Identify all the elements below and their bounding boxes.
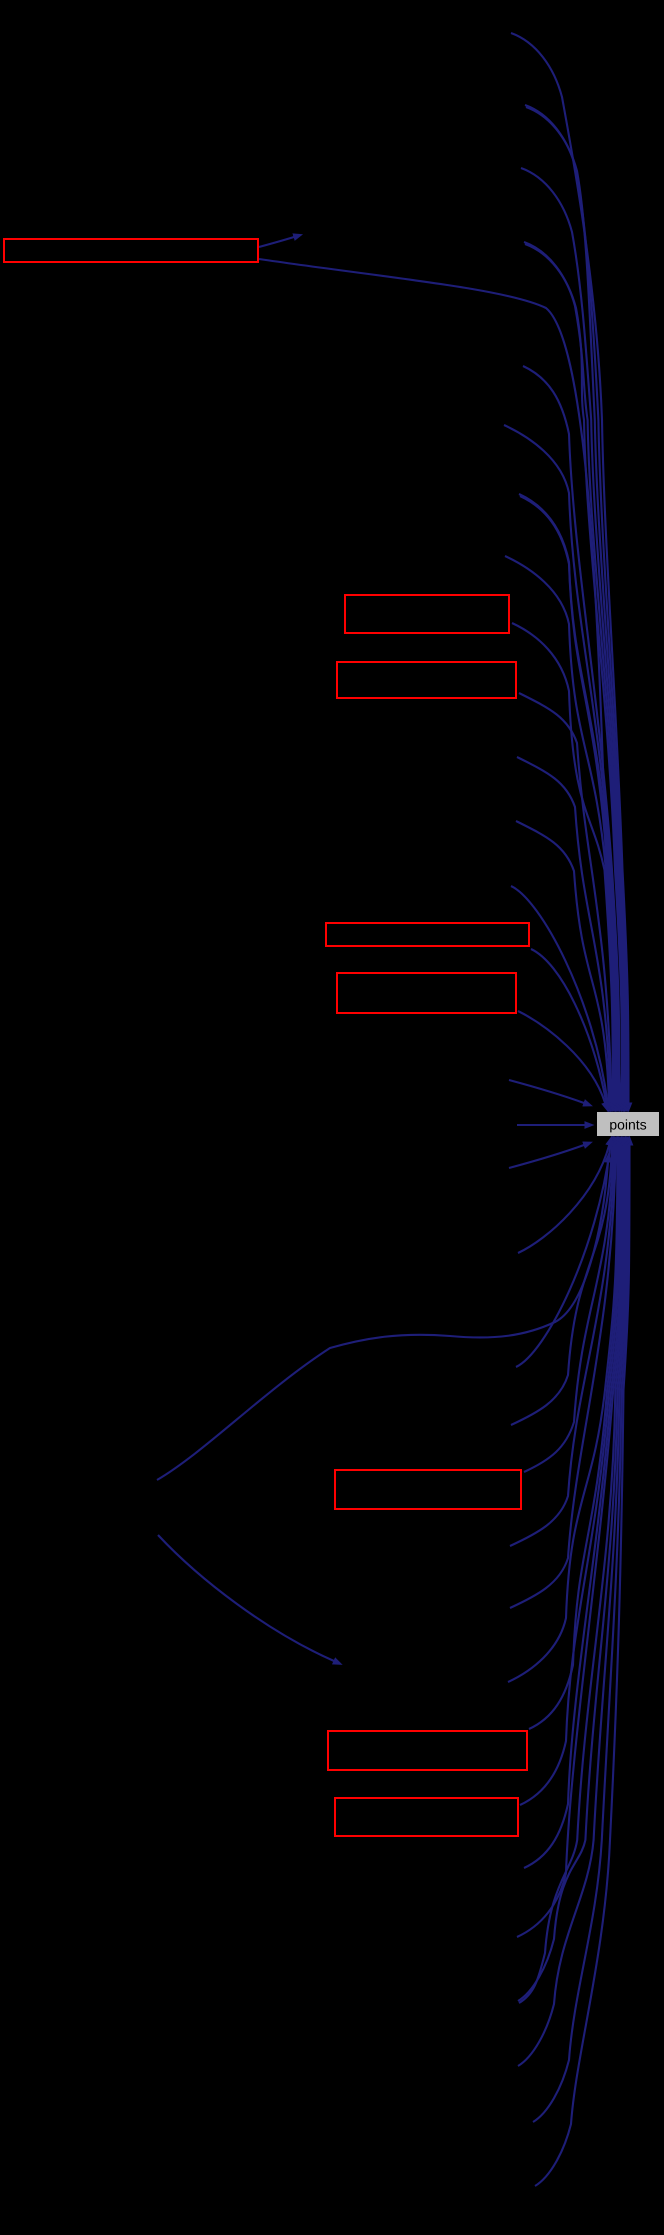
edge caller A2 to points bbox=[525, 105, 627, 1103]
edge caller B4 to points bbox=[518, 1145, 626, 2001]
node points bbox=[597, 1112, 659, 1136]
edge caller A6 to points bbox=[525, 244, 622, 1103]
edge caller B14 to points bbox=[511, 1145, 612, 1425]
edge caller B7 to points bbox=[524, 1145, 621, 1868]
edge caller A1 to points bbox=[511, 33, 629, 1103]
edge caller A11 to points bbox=[520, 496, 616, 1103]
edge caller A17 to points bbox=[511, 886, 608, 1103]
edge hub H1 to points (S curve) bbox=[157, 1162, 608, 1480]
edge caller A19 to points bbox=[518, 1011, 605, 1103]
edge R1 to hidden node M1 bbox=[259, 237, 294, 247]
edge caller B8 to points bbox=[520, 1145, 620, 1805]
edge caller A10 to points bbox=[519, 494, 617, 1103]
edge R1 to points bbox=[259, 259, 621, 1103]
edge caller B12 to points bbox=[510, 1145, 615, 1546]
edge caller B2 to points bbox=[533, 1145, 628, 2122]
edge caller A9 to points bbox=[504, 425, 618, 1103]
truncated node R3 bbox=[337, 662, 516, 698]
truncated node R6 bbox=[335, 1470, 521, 1509]
edge left L1 to points bbox=[509, 1080, 584, 1103]
truncated node R8 bbox=[335, 1798, 518, 1836]
edge caller B3 to points bbox=[518, 1145, 627, 2066]
truncated node R7 bbox=[328, 1731, 527, 1770]
edge caller A3 to points bbox=[526, 107, 626, 1103]
truncated node R5 bbox=[337, 973, 516, 1013]
edge hub H1 to hidden node M2 bbox=[158, 1535, 334, 1661]
edge caller A8 to points bbox=[523, 366, 619, 1103]
edge caller B16 to points bbox=[518, 1145, 609, 1253]
edge caller B15 to points bbox=[516, 1145, 611, 1367]
truncated node R4 bbox=[326, 923, 529, 946]
edge caller B13 to points bbox=[524, 1145, 613, 1472]
edge caller B11 to points bbox=[510, 1145, 616, 1608]
edge caller B5 to points bbox=[519, 1145, 624, 2003]
edge caller A13 to points bbox=[512, 623, 613, 1103]
node points label bbox=[610, 1119, 646, 1132]
edge caller A5 to points bbox=[524, 242, 623, 1103]
edge left L3 to points bbox=[509, 1145, 584, 1168]
edge caller B6 to points bbox=[517, 1145, 623, 1937]
edge caller A15 to points bbox=[517, 757, 610, 1103]
edge caller A4 to points bbox=[521, 168, 625, 1103]
edge caller B1 to points bbox=[535, 1145, 630, 2186]
edge caller A16 to points bbox=[516, 821, 609, 1103]
edge caller A14 to points bbox=[519, 693, 612, 1103]
truncated node R2 bbox=[345, 595, 509, 633]
edge caller B9 to points bbox=[529, 1145, 619, 1729]
edge caller A12 to points bbox=[505, 556, 614, 1103]
edge left L2 to points bbox=[517, 1124, 585, 1126]
truncated node R1 bbox=[4, 239, 258, 262]
edge caller B10 to points bbox=[508, 1145, 617, 1682]
edge caller A18 to points bbox=[531, 949, 606, 1103]
